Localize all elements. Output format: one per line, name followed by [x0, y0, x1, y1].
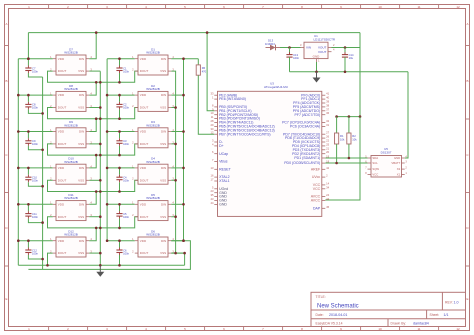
- svg-text:D+: D+: [219, 144, 224, 148]
- svg-text:A: A: [5, 22, 7, 26]
- junction cap row 5 right: [118, 203, 121, 206]
- junction mid supply bus row 5: [106, 203, 109, 206]
- svg-text:DIN: DIN: [161, 202, 166, 206]
- junction mid supply bus row 4: [106, 167, 109, 170]
- wire: DIN tap row 5 right: [171, 203, 183, 205]
- capacitor C11 100n: [25, 211, 38, 219]
- junction VSS chain row 4: [174, 179, 177, 182]
- svg-text:11: 11: [417, 327, 420, 331]
- title block: [311, 292, 466, 326]
- svg-text:WS2812B: WS2812B: [64, 160, 78, 164]
- junction rail / DOUT D12: [46, 264, 49, 267]
- svg-text:GND: GND: [313, 54, 321, 58]
- svg-text:XTAL1: XTAL1: [219, 179, 229, 183]
- svg-text:23: 23: [211, 189, 214, 193]
- svg-text:100n: 100n: [32, 69, 38, 73]
- junction VSS chain row 3: [174, 143, 177, 146]
- svg-text:DIN: DIN: [79, 93, 84, 97]
- capacitor C5 100n: [116, 211, 129, 219]
- wire: R1 bottom lead: [336, 144, 338, 163]
- wire: DOUT of D12 to rail: [48, 253, 53, 265]
- wire: R6 to PB7: [198, 75, 214, 134]
- wire: +5V drop to pullup rail: [359, 48, 361, 117]
- svg-text:UVcc: UVcc: [312, 175, 321, 179]
- wire: VDD feed row 3 right: [107, 131, 135, 133]
- svg-text:10: 10: [378, 5, 382, 9]
- capacitor C2 100n: [116, 102, 129, 110]
- svg-text:WS2812B: WS2812B: [64, 233, 78, 237]
- wire: rail up to VSS of D6: [171, 253, 184, 265]
- junction cap row 4 left: [27, 167, 30, 170]
- svg-text:DIN: DIN: [79, 239, 84, 243]
- svg-text:12: 12: [456, 5, 460, 9]
- svg-text:SDA: SDA: [372, 156, 378, 160]
- svg-text:27: 27: [326, 131, 329, 135]
- wire: lower return rail to DIN of D6: [28, 241, 190, 270]
- junction cap return bus row 4: [41, 185, 44, 188]
- svg-text:14: 14: [326, 181, 329, 185]
- wire: top rail drop to DIN of D7: [89, 33, 96, 59]
- junction diode output / C13: [288, 46, 291, 49]
- junction cap row 3 right: [118, 130, 121, 133]
- junction top rail / D7 DIN drop: [95, 31, 98, 34]
- svg-text:DIN: DIN: [161, 130, 166, 134]
- svg-text:DOUT: DOUT: [58, 215, 67, 219]
- svg-text:GND: GND: [219, 203, 227, 207]
- svg-text:EasyEDA V5.3.14: EasyEDA V5.3.14: [316, 321, 343, 325]
- wire: VDD feed row 2 right: [107, 94, 135, 96]
- svg-text:SCL: SCL: [372, 161, 378, 165]
- wire: mid supply bus: [106, 59, 108, 241]
- wire: +5V rail drop to regulator output: [359, 33, 361, 48]
- svg-text:VIN: VIN: [306, 46, 311, 50]
- svg-text:B: B: [466, 79, 468, 83]
- wire: VSS chain row 5 right: [171, 217, 175, 253]
- junction mid supply bus row 3: [106, 130, 109, 133]
- wire: C3 top hang: [119, 132, 121, 139]
- svg-text:B: B: [5, 79, 7, 83]
- svg-text:37: 37: [326, 107, 329, 111]
- diode D13 1N4004: [265, 39, 280, 51]
- junction row 1 data drop: [95, 81, 98, 84]
- svg-text:VCC: VCC: [372, 172, 378, 176]
- svg-text:Sheet:: Sheet:: [430, 313, 440, 317]
- svg-text:WS2812B: WS2812B: [64, 87, 78, 91]
- wire: top rail drop to C7: [27, 33, 29, 59]
- svg-text:100n: 100n: [32, 106, 38, 110]
- wire: VDD feed row 2 left: [18, 94, 53, 96]
- wire: left cap return bus: [42, 77, 44, 269]
- svg-text:25: 25: [326, 142, 329, 146]
- capacitor C6 100n: [116, 248, 129, 256]
- wire: SCL net: [325, 162, 367, 164]
- junction top rail / C7: [27, 57, 30, 60]
- junction R1 / SCL: [335, 162, 338, 165]
- wire: VSS tap row 3 left: [89, 143, 100, 145]
- junction row 1 loop / mid bus: [99, 81, 102, 84]
- capacitor C1 100n: [116, 66, 129, 74]
- svg-text:20: 20: [326, 150, 329, 154]
- LED D12 (WS2812B): [50, 229, 92, 257]
- svg-text:10k: 10k: [352, 137, 357, 141]
- svg-text:WS2812B: WS2812B: [146, 87, 160, 91]
- svg-text:DOUT: DOUT: [140, 251, 149, 255]
- junction mid ground bus row 6: [99, 252, 102, 255]
- wire: C6 bottom lead: [119, 255, 121, 265]
- junction mid ground bus row 3: [99, 143, 102, 146]
- wire: R6 top lead: [197, 59, 199, 65]
- svg-text:REV:: REV:: [445, 301, 453, 305]
- wire: mid ground bus: [99, 71, 101, 265]
- svg-text:38: 38: [326, 103, 329, 107]
- junction row 3 data drop: [95, 154, 98, 157]
- svg-text:UCap: UCap: [219, 152, 228, 156]
- junction cap row 3 left: [27, 130, 30, 133]
- junction DIN bus row 2: [182, 94, 185, 97]
- svg-text:100n: 100n: [123, 142, 129, 146]
- wire: DOUT loop row 1: [48, 71, 139, 82]
- junction row 4 loop / mid bus: [99, 190, 102, 193]
- wire: VDD feed row 1 left: [18, 58, 53, 60]
- wire: SDA net: [325, 157, 367, 159]
- svg-text:WS2812B: WS2812B: [146, 160, 160, 164]
- svg-text:18: 18: [326, 160, 329, 164]
- svg-text:30: 30: [211, 127, 214, 131]
- wire: VDD feed row 5 right: [107, 203, 135, 205]
- wire: VDD feed row 5 left: [18, 203, 53, 205]
- svg-text:100n: 100n: [123, 251, 129, 255]
- svg-text:35: 35: [211, 193, 214, 197]
- wire: C12 top hang: [27, 241, 29, 248]
- resistor R1 10k: [335, 133, 345, 144]
- svg-text:LD1117S50CTR: LD1117S50CTR: [314, 38, 336, 42]
- junction row 2 right cap bottom: [118, 117, 121, 120]
- wire: regulator GND lead: [316, 62, 318, 72]
- svg-text:WS2812B: WS2812B: [146, 196, 160, 200]
- svg-text:ATmega32U4-MU: ATmega32U4-MU: [264, 85, 288, 89]
- MCU U3 ATmega32U4-MU: [218, 82, 322, 217]
- svg-text:VDD: VDD: [58, 202, 65, 206]
- junction mid ground bus row 2: [99, 106, 102, 109]
- resistor R2 10k: [347, 133, 357, 144]
- svg-text:AVCC: AVCC: [311, 199, 321, 203]
- wire: DOUT loop row 4: [48, 180, 139, 191]
- svg-text:VDD: VDD: [58, 166, 65, 170]
- svg-text:DIN: DIN: [161, 239, 166, 243]
- svg-text:32: 32: [326, 119, 329, 123]
- svg-text:12: 12: [211, 131, 214, 135]
- junction cap return bus row 3: [41, 149, 44, 152]
- junction R2 / SDA: [348, 157, 351, 160]
- LED D8 (WS2812B): [50, 84, 92, 112]
- svg-text:VSS: VSS: [160, 178, 166, 182]
- svg-text:PD1 (SDA/INT1): PD1 (SDA/INT1): [294, 156, 320, 160]
- svg-text:17: 17: [211, 178, 214, 182]
- wire: DIN tap row 6 right: [171, 240, 183, 242]
- wire: VDD feed row 3 left: [18, 131, 53, 133]
- wire: VDD feed row 4 left: [18, 167, 53, 169]
- svg-text:DOUT: DOUT: [140, 178, 149, 182]
- svg-text:10u: 10u: [349, 56, 354, 60]
- wire: ground to DS1307 GND: [405, 72, 408, 158]
- wire: C10 top hang: [27, 168, 29, 175]
- capacitor C4 100n: [116, 175, 129, 183]
- capacitor C13 100n: [286, 52, 299, 60]
- junction supply bus row 2: [17, 94, 20, 97]
- svg-text:31: 31: [326, 123, 329, 127]
- svg-text:100n: 100n: [32, 142, 38, 146]
- MCU right pins: [282, 92, 330, 211]
- wire: VSS tap row 1 left: [89, 70, 100, 72]
- svg-text:26: 26: [326, 135, 329, 139]
- wire: +5V to AVCC: [325, 117, 360, 200]
- svg-text:VDD: VDD: [58, 93, 65, 97]
- wire: VDD feed row 4 right: [107, 167, 135, 169]
- capacitor C3 100n: [116, 138, 129, 146]
- junction cap return bus row 5: [41, 221, 44, 224]
- svg-text:100n: 100n: [123, 215, 129, 219]
- wire: VSS tap row 5 left: [89, 216, 100, 218]
- wire: C10 bottom jog: [28, 182, 42, 186]
- svg-text:VSS: VSS: [160, 142, 166, 146]
- svg-text:VBus: VBus: [219, 160, 228, 164]
- svg-text:DIN: DIN: [79, 202, 84, 206]
- svg-text:VSS: VSS: [78, 142, 84, 146]
- svg-text:PB7 (PCINT7/OC0A/OC1C/RTS): PB7 (PCINT7/OC0A/OC1C/RTS): [219, 132, 270, 136]
- regulator U1 LD1117S50CTR: [300, 34, 336, 63]
- wire: C1 bottom lead: [119, 73, 121, 82]
- svg-text:VDD: VDD: [140, 202, 147, 206]
- junction DIN bus row 3: [182, 130, 185, 133]
- LED D4 (WS2812B): [132, 157, 174, 185]
- svg-text:DOUT: DOUT: [140, 69, 149, 73]
- wire: top rail to PB1: [207, 33, 214, 111]
- svg-text:VDD: VDD: [140, 57, 147, 61]
- svg-text:VCC: VCC: [313, 187, 321, 191]
- svg-text:VSS: VSS: [160, 215, 166, 219]
- svg-text:TITLE:: TITLE:: [316, 295, 326, 299]
- svg-text:29: 29: [211, 123, 214, 127]
- svg-text:VSS: VSS: [160, 251, 166, 255]
- svg-text:VDD: VDD: [140, 130, 147, 134]
- junction supply bus row 6: [17, 239, 20, 242]
- wire: DOUT loop row 3: [48, 144, 139, 155]
- svg-text:45: 45: [326, 205, 329, 209]
- LED D9 (WS2812B): [50, 120, 92, 148]
- wire: C5 bottom lead: [119, 219, 121, 228]
- svg-text:DAP: DAP: [313, 206, 321, 210]
- wire: VSS tap row 4 left: [89, 179, 100, 181]
- resistor R6 470: [196, 65, 206, 75]
- svg-text:VSS: VSS: [78, 215, 84, 219]
- svg-text:100n: 100n: [123, 69, 129, 73]
- junction gnd rail / C14: [344, 71, 347, 74]
- RTC U5 DS1307: [365, 147, 407, 177]
- svg-text:DOUT: DOUT: [140, 106, 149, 110]
- junction row 4 right cap bottom: [118, 190, 121, 193]
- svg-text:E: E: [466, 297, 468, 301]
- capacitor C9 100n: [25, 138, 38, 146]
- svg-text:VDD: VDD: [58, 130, 65, 134]
- svg-text:DS1307: DS1307: [381, 150, 392, 154]
- svg-text:41: 41: [326, 92, 329, 96]
- wire: C14 top lead: [344, 48, 346, 55]
- svg-text:VDD: VDD: [58, 239, 65, 243]
- junction row 2 data drop: [95, 117, 98, 120]
- svg-text:16: 16: [211, 174, 214, 178]
- svg-text:100n: 100n: [293, 56, 299, 60]
- svg-text:1.0: 1.0: [454, 301, 459, 305]
- svg-text:Drawn By:: Drawn By:: [391, 321, 407, 325]
- svg-text:40: 40: [326, 96, 329, 100]
- wire: C4 bottom lead: [119, 182, 121, 191]
- junction VOUT / C14: [344, 46, 347, 49]
- MCU left pins: [211, 92, 275, 207]
- svg-text:VDD: VDD: [140, 93, 147, 97]
- LED D10 (WS2812B): [50, 157, 92, 185]
- svg-text:GND: GND: [394, 156, 400, 160]
- wire: C2 bottom lead: [119, 109, 121, 118]
- wire: DOUT loop row 5: [48, 217, 139, 228]
- svg-text:DIN: DIN: [161, 57, 166, 61]
- junction pullup rail / R2: [348, 115, 351, 118]
- capacitor C10 100n: [25, 175, 38, 183]
- svg-text:28: 28: [211, 119, 214, 123]
- LED D5 (WS2812B): [132, 193, 174, 221]
- wire: C5 top hang: [119, 204, 121, 211]
- svg-text:100n: 100n: [32, 179, 38, 183]
- svg-text:VSS: VSS: [160, 69, 166, 73]
- svg-text:SQW: SQW: [372, 167, 379, 171]
- svg-text:WS2812B: WS2812B: [146, 233, 160, 237]
- svg-text:1N4004: 1N4004: [265, 42, 275, 46]
- LED D2 (WS2812B): [132, 84, 174, 112]
- wire: C4 top hang: [119, 168, 121, 175]
- svg-text:WS2812B: WS2812B: [64, 123, 78, 127]
- svg-text:WS2812B: WS2812B: [64, 196, 78, 200]
- wire: VOUT to +5V: [332, 47, 361, 49]
- svg-text:DIN: DIN: [79, 166, 84, 170]
- wire: R2 top lead: [348, 117, 350, 133]
- wire: C11 bottom jog: [28, 219, 42, 223]
- svg-text:44: 44: [326, 197, 329, 201]
- wire: C14 bottom lead: [344, 57, 346, 72]
- wire: data drop to row 2 left: [89, 82, 96, 95]
- svg-text:43: 43: [211, 197, 214, 201]
- wire: C13 top lead: [289, 48, 291, 55]
- LED D6 (WS2812B): [132, 229, 174, 257]
- wire: C9 bottom jog: [28, 146, 42, 150]
- wire: VSS tap row 6 left: [89, 252, 100, 254]
- wire: R2 bottom lead: [348, 144, 350, 158]
- svg-text:42: 42: [326, 166, 329, 170]
- wire: VSS chain row 3 right: [171, 144, 175, 180]
- junction cap row 5 left: [27, 203, 30, 206]
- svg-text:DIN: DIN: [79, 130, 84, 134]
- svg-text:damtac84: damtac84: [413, 321, 429, 325]
- LED D1 (WS2812B): [132, 47, 174, 75]
- svg-text:RESET: RESET: [219, 167, 232, 171]
- junction mid supply bus row 6: [106, 239, 109, 242]
- junction DIN bus row 4: [182, 167, 185, 170]
- svg-text:VDD: VDD: [58, 57, 65, 61]
- wire: diode to VIN: [280, 47, 301, 49]
- wire: VDD feed row 1 right: [107, 58, 135, 60]
- svg-text:VSS: VSS: [160, 106, 166, 110]
- junction DIN bus / D6: [182, 239, 185, 242]
- svg-text:WS2812B: WS2812B: [146, 51, 160, 55]
- junction row 2 loop / mid bus: [99, 117, 102, 120]
- wire: R1 top lead: [336, 117, 338, 133]
- wire: C8 bottom jog: [28, 109, 42, 113]
- LED D7 (WS2812B): [50, 47, 92, 75]
- junction ground rail / cap bus: [118, 264, 121, 267]
- wire: C6 top hang: [119, 241, 121, 248]
- svg-text:24: 24: [326, 193, 329, 197]
- wire: ground rail (regulator): [290, 71, 409, 73]
- svg-text:DOUT: DOUT: [58, 106, 67, 110]
- svg-text:VDD: VDD: [140, 239, 147, 243]
- svg-text:VOUT: VOUT: [318, 50, 327, 54]
- svg-text:PE6 (INT.6/AIN0): PE6 (INT.6/AIN0): [219, 97, 246, 101]
- junction gnd rail / regulator: [315, 71, 318, 74]
- svg-text:34: 34: [326, 185, 329, 189]
- junction supply bus row 4: [17, 167, 20, 170]
- junction DIN bus row 5: [182, 203, 185, 206]
- wire: VSS tap row 2 left: [89, 107, 100, 109]
- wire: C8 top hang: [27, 95, 29, 102]
- wire: C2 top hang: [119, 95, 121, 102]
- svg-text:22: 22: [326, 139, 329, 143]
- wire: VDD feed row 6 left: [18, 240, 53, 242]
- svg-text:21: 21: [326, 146, 329, 150]
- wire: bottom ground rail: [18, 264, 184, 266]
- svg-text:DOUT: DOUT: [140, 215, 149, 219]
- wire: data drop to row 3 left: [89, 119, 96, 132]
- svg-text:DIN: DIN: [79, 57, 84, 61]
- junction mid ground bus row 5: [99, 215, 102, 218]
- svg-text:R1: R1: [340, 134, 344, 138]
- junction DIN bus top: [182, 57, 185, 60]
- svg-text:E: E: [5, 297, 7, 301]
- wire: C1 top hang: [119, 59, 121, 66]
- wire: C3 bottom lead: [119, 146, 121, 155]
- svg-text:DOUT: DOUT: [58, 178, 67, 182]
- LED D11 (WS2812B): [50, 193, 92, 221]
- svg-text:10k: 10k: [340, 137, 345, 141]
- svg-text:DIN: DIN: [161, 166, 166, 170]
- capacitor C14 10u: [342, 52, 354, 60]
- junction cap row 6 right: [118, 239, 121, 242]
- svg-text:A: A: [466, 22, 468, 26]
- wire: VSS chain row 1 right: [171, 71, 175, 107]
- junction row 3 loop / mid bus: [99, 154, 102, 157]
- wire: C9 top hang: [27, 132, 29, 139]
- junction row 5 right cap bottom: [118, 227, 121, 230]
- wire: left supply bus: [17, 59, 19, 266]
- junction VSS chain row 6: [174, 252, 177, 255]
- svg-text:PD0 (OC0B/SCL/INT0): PD0 (OC0B/SCL/INT0): [284, 161, 320, 165]
- junction cap row 1 left: [27, 57, 30, 60]
- svg-text:DOUT: DOUT: [58, 69, 67, 73]
- junction VSS chain row 5: [174, 215, 177, 218]
- wire: data drop to row 4 left: [89, 155, 96, 168]
- wire: DIN tap row 2 right: [171, 94, 183, 96]
- junction row 4 data drop: [95, 190, 98, 193]
- junction supply bus row 5: [17, 203, 20, 206]
- wire: VDD feed row 6 right: [107, 240, 135, 242]
- svg-text:WS2812B: WS2812B: [64, 51, 78, 55]
